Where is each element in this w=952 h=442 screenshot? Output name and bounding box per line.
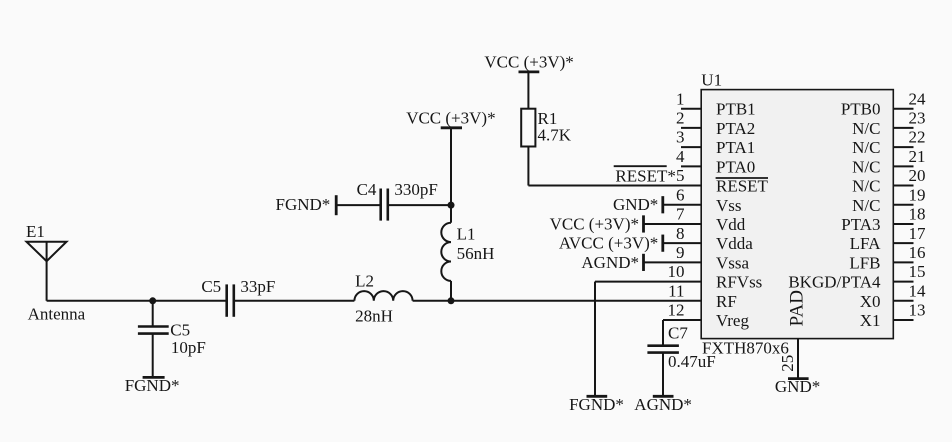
svg-text:U1: U1 bbox=[701, 71, 722, 90]
svg-text:13: 13 bbox=[909, 301, 926, 320]
svg-text:5: 5 bbox=[676, 166, 685, 185]
svg-text:PTA3: PTA3 bbox=[841, 215, 880, 234]
svg-text:L1: L1 bbox=[457, 225, 476, 244]
svg-text:C5: C5 bbox=[201, 277, 221, 296]
svg-text:FGND*: FGND* bbox=[276, 195, 331, 214]
svg-text:GND*: GND* bbox=[775, 377, 820, 396]
svg-text:X1: X1 bbox=[860, 311, 881, 330]
svg-text:GND*: GND* bbox=[613, 195, 658, 214]
svg-text:11: 11 bbox=[668, 281, 684, 300]
svg-text:22: 22 bbox=[909, 128, 926, 147]
svg-text:19: 19 bbox=[909, 185, 926, 204]
svg-text:AGND*: AGND* bbox=[634, 395, 692, 414]
svg-text:10pF: 10pF bbox=[171, 338, 206, 357]
svg-text:BKGD/PTA4: BKGD/PTA4 bbox=[788, 273, 881, 292]
svg-text:FGND*: FGND* bbox=[569, 395, 624, 414]
svg-text:VCC (+3V)*: VCC (+3V)* bbox=[484, 52, 573, 71]
svg-text:RF: RF bbox=[716, 292, 737, 311]
svg-text:C7: C7 bbox=[668, 324, 688, 343]
svg-text:N/C: N/C bbox=[852, 196, 880, 215]
svg-text:AGND*: AGND* bbox=[581, 253, 639, 272]
svg-text:PTA2: PTA2 bbox=[716, 119, 755, 138]
svg-text:Vdda: Vdda bbox=[716, 234, 753, 253]
svg-text:N/C: N/C bbox=[852, 119, 880, 138]
svg-text:14: 14 bbox=[909, 281, 927, 300]
svg-text:Vssa: Vssa bbox=[716, 253, 750, 272]
svg-text:3: 3 bbox=[676, 128, 685, 147]
svg-text:N/C: N/C bbox=[852, 177, 880, 196]
svg-text:10: 10 bbox=[668, 262, 685, 281]
svg-text:RESET*: RESET* bbox=[615, 167, 675, 186]
svg-text:4.7K: 4.7K bbox=[538, 126, 572, 145]
svg-text:AVCC (+3V)*: AVCC (+3V)* bbox=[559, 234, 658, 253]
svg-text:16: 16 bbox=[909, 243, 926, 262]
svg-text:330pF: 330pF bbox=[394, 180, 437, 199]
svg-text:9: 9 bbox=[676, 243, 685, 262]
svg-text:24: 24 bbox=[909, 89, 927, 108]
svg-text:Vreg: Vreg bbox=[716, 311, 749, 330]
svg-text:18: 18 bbox=[909, 205, 926, 224]
svg-text:N/C: N/C bbox=[852, 138, 880, 157]
svg-text:33pF: 33pF bbox=[240, 277, 275, 296]
svg-text:1: 1 bbox=[676, 89, 685, 108]
svg-text:E1: E1 bbox=[26, 222, 45, 241]
svg-text:RESET: RESET bbox=[716, 177, 769, 196]
svg-text:8: 8 bbox=[676, 224, 685, 243]
svg-text:25: 25 bbox=[778, 355, 797, 372]
svg-text:0.47uF: 0.47uF bbox=[668, 352, 716, 371]
svg-text:C4: C4 bbox=[357, 180, 377, 199]
svg-text:15: 15 bbox=[909, 262, 926, 281]
svg-text:28nH: 28nH bbox=[355, 306, 393, 325]
svg-text:LFB: LFB bbox=[849, 253, 880, 272]
svg-text:23: 23 bbox=[909, 109, 926, 128]
svg-text:RFVss: RFVss bbox=[716, 273, 762, 292]
svg-text:7: 7 bbox=[676, 205, 685, 224]
svg-text:PAD: PAD bbox=[787, 290, 808, 326]
svg-text:X0: X0 bbox=[860, 292, 881, 311]
svg-text:20: 20 bbox=[909, 166, 926, 185]
svg-text:N/C: N/C bbox=[852, 157, 880, 176]
svg-text:56nH: 56nH bbox=[457, 244, 495, 263]
svg-text:LFA: LFA bbox=[850, 234, 882, 253]
svg-text:2: 2 bbox=[676, 109, 685, 128]
svg-text:VCC (+3V)*: VCC (+3V)* bbox=[550, 214, 639, 233]
svg-text:21: 21 bbox=[909, 147, 926, 166]
svg-text:12: 12 bbox=[668, 301, 685, 320]
svg-text:PTA0: PTA0 bbox=[716, 157, 755, 176]
svg-text:PTA1: PTA1 bbox=[716, 138, 755, 157]
svg-text:FGND*: FGND* bbox=[125, 376, 180, 395]
svg-text:L2: L2 bbox=[355, 272, 374, 291]
svg-text:PTB0: PTB0 bbox=[841, 100, 881, 119]
svg-text:6: 6 bbox=[676, 185, 685, 204]
svg-text:17: 17 bbox=[909, 224, 927, 243]
svg-text:Antenna: Antenna bbox=[28, 305, 86, 324]
svg-text:PTB1: PTB1 bbox=[716, 100, 756, 119]
svg-text:C5: C5 bbox=[170, 320, 190, 339]
svg-text:Vss: Vss bbox=[716, 196, 742, 215]
svg-text:VCC (+3V)*: VCC (+3V)* bbox=[406, 108, 495, 127]
svg-text:4: 4 bbox=[676, 147, 685, 166]
svg-text:Vdd: Vdd bbox=[716, 215, 746, 234]
